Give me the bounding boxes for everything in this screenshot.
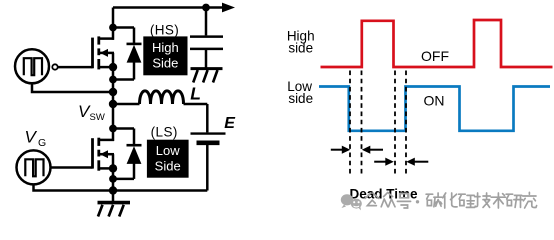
svg-text:side: side <box>288 91 313 106</box>
node bottom rail dot <box>109 186 117 194</box>
号 <box>397 194 410 208</box>
node HS source dot <box>109 63 117 71</box>
术 <box>491 193 505 208</box>
wire LS gate lead <box>50 166 93 169</box>
node HS diode return dot <box>109 76 117 84</box>
wire top rail <box>113 6 224 9</box>
碳 <box>426 193 442 207</box>
svg-text:OFF: OFF <box>421 48 449 64</box>
ground (top right) <box>191 69 223 83</box>
diode D1 (HS body diode) <box>113 28 142 80</box>
waveform: red high-side trace <box>321 20 553 67</box>
svg-text:Side: Side <box>155 159 181 174</box>
watermark icon (speech bubbles) <box>341 194 362 210</box>
node LS drain/diode dot <box>109 125 117 133</box>
node top-rail junction dot <box>202 4 210 12</box>
node HS drain/diode junction dot <box>109 24 117 32</box>
svg-text:SW: SW <box>90 112 105 123</box>
capacitor C (input cap) <box>190 8 223 68</box>
wire HS drain rail <box>112 8 115 40</box>
label High Side box <box>143 36 187 75</box>
化 <box>443 193 457 208</box>
svg-text:(HS): (HS) <box>150 22 179 37</box>
battery E <box>191 134 226 191</box>
wire rail to bottom <box>112 168 115 190</box>
watermark chinese text (drawn strokes) <box>365 192 537 208</box>
node driver return dot <box>109 88 117 96</box>
公 <box>365 193 379 206</box>
· <box>416 200 419 203</box>
wire switch-node rail <box>112 67 115 141</box>
svg-text:Side: Side <box>152 56 178 71</box>
众 <box>381 192 395 206</box>
svg-text:V: V <box>25 127 38 146</box>
wire HS driver return <box>32 83 109 92</box>
究 <box>523 192 537 208</box>
ground (bottom) <box>98 191 131 217</box>
技 <box>475 193 491 207</box>
wire HS gate lead <box>58 66 93 69</box>
svg-text:G: G <box>38 137 46 149</box>
node LS source dot <box>109 164 117 172</box>
pulse source VG2 (low side driver) <box>17 150 51 184</box>
node top-rail output arrow <box>222 3 235 13</box>
dead-time arrows row2 <box>374 161 428 163</box>
svg-text:side: side <box>288 40 313 55</box>
dead-time dashed guides <box>350 71 406 176</box>
node VSW dot <box>109 100 117 108</box>
transistor Q1 (high-side MOSFET) <box>93 36 115 69</box>
svg-text:High: High <box>152 40 179 55</box>
研 <box>506 194 522 207</box>
svg-text:(LS): (LS) <box>151 124 178 139</box>
waveform: blue low-side trace <box>319 87 550 131</box>
svg-text:L: L <box>190 83 201 103</box>
svg-text:Low: Low <box>156 143 180 158</box>
svg-text:ON: ON <box>424 93 445 109</box>
pulse source VG1 (high side driver) <box>15 49 58 83</box>
wire LS driver return / bottom rail <box>34 184 208 191</box>
svg-text:E: E <box>224 115 236 132</box>
inductor L1 <box>113 91 207 133</box>
node LS diode return dot <box>109 175 117 183</box>
diode D2 (LS body diode) <box>113 129 142 179</box>
transistor Q2 (low-side MOSFET) <box>93 138 115 171</box>
dead-time arrows row1 <box>331 149 383 151</box>
硅 <box>459 194 475 207</box>
label Low Side box <box>147 140 189 178</box>
